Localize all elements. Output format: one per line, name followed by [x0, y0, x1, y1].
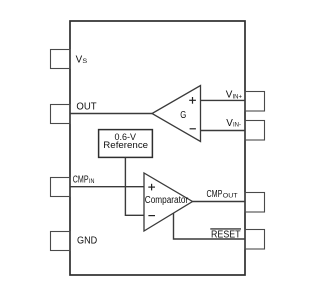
svg-text:OUT: OUT — [76, 100, 97, 112]
pin RESET (terminal box, right) — [245, 230, 265, 250]
minus sign of comparator — [148, 215, 155, 217]
svg-text:V: V — [226, 89, 233, 101]
wire RESET pin to comparator (L-shaped) — [174, 213, 246, 239]
pin OUT (terminal box, left) — [51, 105, 71, 124]
wire CMPIN pin to comparator + input — [70, 186, 144, 188]
IC package outline U1 — [70, 21, 245, 275]
svg-text:IN: IN — [89, 178, 95, 185]
svg-text:GND: GND — [77, 235, 98, 247]
wire reference output to comparator - input — [125, 157, 144, 215]
wire amp - input to VIN- pin — [201, 130, 246, 132]
wire amp + input to VIN+ pin — [201, 99, 246, 101]
plus sign of comparator — [148, 184, 155, 191]
comparator U2 (triangle, points right) — [144, 173, 193, 231]
pin CMPIN (terminal box, left) — [51, 178, 71, 197]
minus sign of op-amp G — [190, 128, 196, 130]
pin VIN- (terminal box, right) — [245, 121, 265, 141]
pin GND (terminal box, left) — [51, 232, 71, 251]
svg-text:IN+: IN+ — [233, 93, 243, 100]
wire OUT pin to amplifier output — [70, 113, 152, 115]
pin CMPOUT (terminal box, right) — [245, 193, 265, 213]
overline of RESET — [210, 228, 241, 230]
svg-text:Reference: Reference — [103, 140, 148, 150]
svg-text:Comparator: Comparator — [145, 195, 189, 206]
svg-text:G: G — [180, 110, 186, 121]
svg-text:CMP: CMP — [207, 188, 223, 200]
pin VIN+ (terminal box, right) — [245, 92, 265, 112]
plus sign of op-amp G — [189, 97, 196, 104]
wire comparator output to CMPOUT pin — [193, 201, 246, 203]
svg-text:V: V — [76, 54, 83, 66]
pin VS (terminal box, left) — [51, 50, 71, 69]
svg-text:OUT: OUT — [223, 193, 238, 200]
op-amp G (output amplifier triangle, points left) — [152, 86, 201, 142]
svg-text:V: V — [226, 117, 233, 129]
svg-text:IN-: IN- — [233, 122, 241, 129]
svg-text:S: S — [82, 58, 88, 65]
svg-text:CMP: CMP — [73, 173, 89, 185]
reference block REF 0.6-V — [99, 130, 153, 158]
